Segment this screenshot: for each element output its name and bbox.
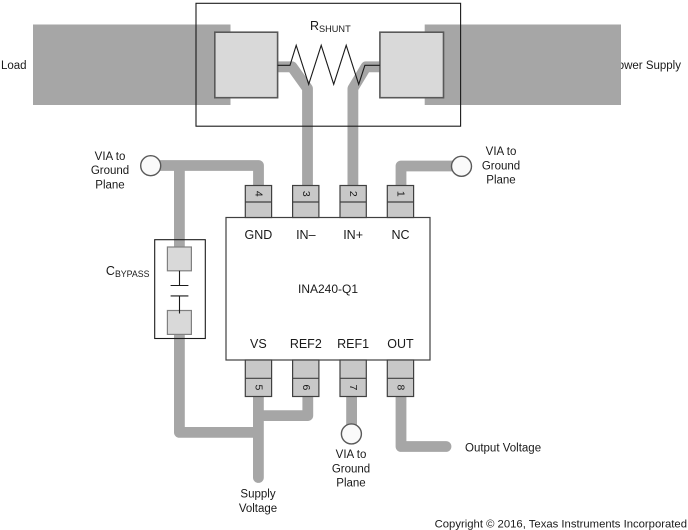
wire REF1 stub from pin 7 to via (346, 394, 357, 428)
svg-text:Supply: Supply (240, 489, 275, 501)
resistor RSHUNT zigzag (278, 45, 380, 84)
pin 7 pad (340, 360, 366, 397)
via right to ground plane (452, 156, 472, 176)
svg-text:Copyright © 2016, Texas Instru: Copyright © 2016, Texas Instruments Inco… (435, 519, 687, 530)
svg-text:Load: Load (1, 60, 27, 72)
svg-text:Plane: Plane (486, 175, 515, 187)
svg-text:GND: GND (245, 228, 273, 242)
pin 1 pad (387, 186, 413, 218)
shunt measurement box outline (196, 3, 461, 126)
capacitor CBYPASS top pad (167, 247, 191, 271)
svg-text:8: 8 (395, 384, 407, 390)
svg-text:2: 2 (347, 191, 359, 197)
pad shunt left (215, 32, 278, 98)
svg-text:Plane: Plane (95, 180, 124, 192)
pin 8 pad (387, 360, 413, 397)
via REF1 to ground plane (341, 424, 361, 444)
wire OUT trace from pin 8 to output (401, 394, 446, 447)
wire IN+ trace from shunt right pad to pin 2 (353, 67, 381, 190)
svg-text:REF2: REF2 (290, 337, 322, 351)
pin 5 pad (245, 360, 271, 397)
svg-text:IN–: IN– (296, 228, 316, 242)
pad shunt right (380, 32, 444, 98)
via left to ground plane (141, 156, 161, 176)
wire power trace right bus (425, 25, 621, 106)
svg-text:4: 4 (252, 191, 264, 197)
wire branch from GND trace down to CBYPASS top pad (174, 166, 185, 251)
svg-text:Plane: Plane (336, 478, 365, 490)
wire VS supply trace from pin 5 down (253, 394, 264, 478)
svg-text:OUT: OUT (387, 337, 414, 351)
svg-text:VIA to: VIA to (95, 151, 126, 163)
wire NC trace: via right to pin 1 (401, 166, 461, 187)
svg-text:INA240-Q1: INA240-Q1 (298, 282, 358, 296)
capacitor CBYPASS bottom pad (167, 311, 191, 335)
svg-text:CBYPASS: CBYPASS (106, 264, 150, 279)
svg-text:VIA to: VIA to (486, 146, 517, 158)
svg-text:VS: VS (250, 337, 267, 351)
capacitor CBYPASS symbol (171, 271, 189, 314)
svg-text:5: 5 (252, 384, 264, 390)
wire REF2 trace from pin 6 to supply line (259, 394, 308, 416)
wire GND via trace: via to pin 4 (151, 166, 259, 188)
pin 3 pad (293, 186, 319, 218)
svg-text:REF1: REF1 (337, 337, 369, 351)
svg-text:Output Voltage: Output Voltage (465, 443, 541, 455)
svg-text:VIA to: VIA to (336, 449, 367, 461)
svg-text:Ground: Ground (91, 165, 129, 177)
pin 2 pad (340, 186, 366, 218)
pin 6 pad (293, 360, 319, 397)
svg-text:6: 6 (300, 384, 312, 390)
svg-text:Voltage: Voltage (239, 503, 277, 515)
capacitor CBYPASS bottom trace to supply line (179, 330, 259, 432)
svg-text:Ground: Ground (482, 160, 520, 172)
svg-text:RSHUNT: RSHUNT (310, 19, 351, 34)
svg-text:7: 7 (347, 384, 359, 390)
svg-text:Ground: Ground (332, 463, 370, 475)
wire IN- trace from shunt left pad to pin 3 (278, 67, 308, 190)
svg-text:3: 3 (300, 191, 312, 197)
op-amp U1 INA240-Q1 body (226, 218, 430, 361)
pin 4 pad (245, 186, 271, 218)
svg-text:1: 1 (395, 191, 407, 197)
wire power trace left bus (33, 25, 231, 106)
svg-text:NC: NC (391, 228, 409, 242)
capacitor CBYPASS box outline (155, 240, 206, 339)
svg-text:IN+: IN+ (343, 228, 363, 242)
